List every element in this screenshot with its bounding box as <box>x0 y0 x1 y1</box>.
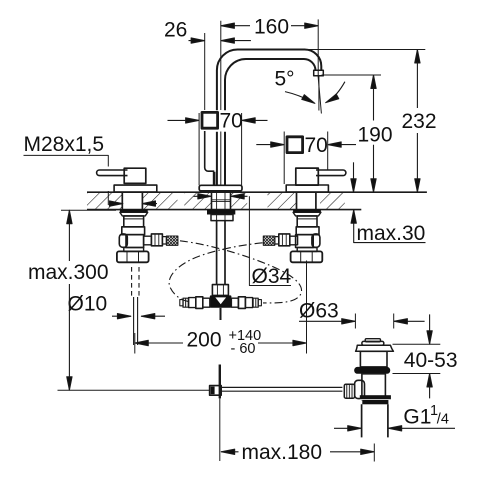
svg-text:26: 26 <box>164 19 187 42</box>
right valve bottom hex nut <box>291 251 323 262</box>
waste plug cap <box>365 339 380 342</box>
left valve flange nut below deck <box>120 210 148 213</box>
svg-text:Ø34: Ø34 <box>252 265 292 288</box>
right valve inlet elbow <box>312 234 320 247</box>
svg-text:- 60: - 60 <box>231 341 256 357</box>
label Ø10 pipe diameter <box>68 293 166 319</box>
deck top surface line <box>87 191 427 193</box>
right valve upper body <box>297 216 317 227</box>
spout outlet tip <box>314 70 324 76</box>
right valve shoulder <box>296 227 319 235</box>
svg-text:160: 160 <box>254 15 289 38</box>
hose swing curve from right valve (dash-dot) <box>169 243 262 302</box>
label Ø34 shank diameter <box>194 194 292 288</box>
T-connector bottom stub <box>220 308 222 320</box>
left escutcheon <box>114 185 157 192</box>
tube union nut <box>212 285 228 296</box>
label Ø63 waste flange <box>299 300 425 329</box>
right braided hose <box>263 236 275 245</box>
svg-text:Ø10: Ø10 <box>68 293 108 316</box>
waste lower body <box>362 374 386 400</box>
label square 70 (handle) <box>256 132 356 185</box>
left valve cartridge housing <box>126 235 144 248</box>
svg-text:70: 70 <box>305 134 328 157</box>
left valve lower neck <box>124 248 144 252</box>
svg-text:190: 190 <box>358 124 393 147</box>
T-connector right port fittings <box>231 298 238 307</box>
deck underside line <box>87 209 361 211</box>
pop-up rod reference line <box>58 389 210 391</box>
left valve outlet stub <box>144 236 152 245</box>
svg-text:M28x1,5: M28x1,5 <box>24 133 105 156</box>
rod side port housing <box>355 380 365 398</box>
svg-text:40-53: 40-53 <box>404 349 458 372</box>
dimension 232 <box>307 50 437 193</box>
waste tailpipe G1 1/4 <box>362 404 388 437</box>
svg-text:max.300: max.300 <box>28 261 109 284</box>
left handle base <box>124 168 146 183</box>
hose swing curve from left valve (dash-dot) <box>180 241 302 303</box>
svg-text:232: 232 <box>402 110 437 133</box>
dimension 200 +140/-60 <box>135 261 307 358</box>
svg-text:max.180: max.180 <box>242 441 323 464</box>
horizontal pop-up rod <box>221 387 342 391</box>
dimension 190 <box>322 75 393 192</box>
right handle base <box>296 168 319 185</box>
left hose ferrule <box>162 237 166 244</box>
dimension 26 <box>164 19 251 111</box>
right valve lower neck <box>297 248 317 252</box>
spout centre line <box>220 21 222 185</box>
waste O-ring seal <box>354 367 390 374</box>
left braided hose <box>166 236 178 245</box>
right valve cartridge housing <box>296 235 314 248</box>
knurled rod nut <box>344 384 354 398</box>
dimension max.180 <box>221 441 374 464</box>
countertop deck hatched section <box>87 192 427 209</box>
left valve shank through deck <box>122 192 142 209</box>
Ø10 connection pipes (solid lower part) <box>134 297 138 345</box>
left valve shoulder <box>122 227 145 235</box>
svg-text:/4: /4 <box>437 412 449 428</box>
rod coupler block <box>210 386 222 396</box>
svg-text:200: 200 <box>187 329 222 352</box>
spout locknut below deck <box>207 210 235 215</box>
waste flange <box>356 345 394 351</box>
waste lower rings <box>360 395 391 399</box>
label G1 1/4 tailpipe thread <box>334 403 455 431</box>
spout inner profile <box>225 59 316 185</box>
mixed water tube <box>217 221 225 285</box>
right valve shank through deck <box>297 192 316 209</box>
right hose compression nut <box>279 234 290 246</box>
left hose compression nut <box>151 234 162 246</box>
right valve flange nut below deck <box>293 210 321 213</box>
spout base flange <box>199 185 242 191</box>
svg-text:Ø63: Ø63 <box>299 300 339 323</box>
dimension 40-53 <box>393 314 458 398</box>
left valve inlet elbow <box>119 234 127 247</box>
right valve outlet stub <box>290 236 298 245</box>
thread label M28x1,5 <box>24 133 158 206</box>
right handle lever <box>316 170 346 176</box>
waste centre extension line <box>373 444 375 462</box>
left valve bottom hex nut <box>117 251 149 262</box>
spout front edge / base step profile <box>205 131 215 171</box>
dimension max.300 <box>28 210 116 390</box>
label square 70 (spout) <box>168 110 268 133</box>
dimension 160 <box>221 15 318 75</box>
Ø10 connection pipes (dashed upper part) <box>132 267 139 299</box>
svg-text:70: 70 <box>220 110 243 133</box>
svg-text:5°: 5° <box>275 68 295 91</box>
svg-text:G1: G1 <box>403 406 431 429</box>
spout shank through deck <box>212 192 231 209</box>
waste upper body <box>360 351 387 367</box>
right hose ferrule <box>275 237 279 244</box>
vertical pull rod <box>219 365 221 399</box>
right escutcheon <box>286 185 328 192</box>
T-connector left port fittings <box>203 298 210 307</box>
5 degree outlet angle annotation <box>275 68 345 114</box>
dimension max.30 deck thickness <box>351 162 426 245</box>
spout base extension lines (70 width) <box>199 113 242 185</box>
spout outer profile <box>217 50 321 186</box>
left valve upper body <box>124 216 144 227</box>
T-connector body with check-valve mark <box>210 295 232 307</box>
svg-text:max.30: max.30 <box>357 222 426 245</box>
left handle lever <box>97 170 128 176</box>
